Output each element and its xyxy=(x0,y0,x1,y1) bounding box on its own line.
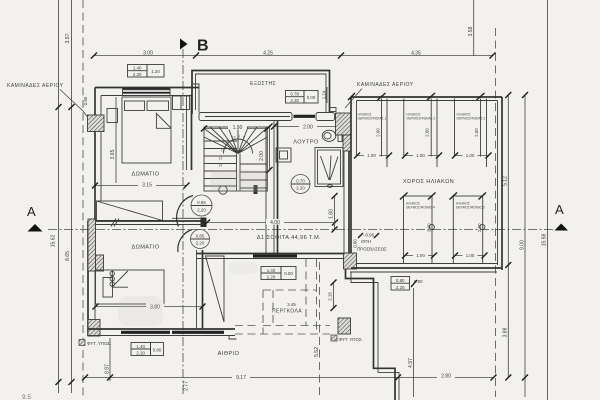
hall wall right of stair xyxy=(265,127,267,254)
svg-text:0.80: 0.80 xyxy=(414,279,423,284)
hall dim 2.00 vertical xyxy=(269,127,271,171)
dim line right 5.12/3.88 xyxy=(507,95,509,378)
svg-text:2.00: 2.00 xyxy=(259,151,265,161)
bedroom2 top wall xyxy=(88,220,203,222)
nightstand N1 xyxy=(107,109,118,123)
leader right xyxy=(345,89,362,109)
bed B2 knobs xyxy=(110,271,114,275)
dim 2.15 xyxy=(333,283,335,309)
bed B1 outline xyxy=(122,97,171,163)
svg-text:1.40: 1.40 xyxy=(133,66,142,71)
svg-text:10: 10 xyxy=(232,136,236,140)
svg-text:ΘΕΡΜΟΣΙΦΩΝΑΣ 5: ΘΕΡΜΟΣΙΦΩΝΑΣ 5 xyxy=(456,206,485,210)
faint scan smudge 2 xyxy=(118,296,163,326)
svg-text:9.00: 9.00 xyxy=(520,240,526,250)
balcony bottom wall seg2 xyxy=(316,113,335,121)
courtyard wall SE outer xyxy=(346,269,396,400)
svg-text:4.25: 4.25 xyxy=(263,50,273,56)
shower streams xyxy=(321,156,339,181)
svg-text:ΘΕΡΜΟΣΙΦΩΝΑΣ 4: ΘΕΡΜΟΣΙΦΩΝΑΣ 4 xyxy=(406,206,435,210)
dim 2.00 bath xyxy=(274,126,340,128)
dim line right 9.00 xyxy=(524,95,526,397)
svg-text:3.97: 3.97 xyxy=(65,33,71,43)
dim 4.00 xyxy=(207,222,335,224)
balcony bottom wall seg1 xyxy=(199,113,292,121)
svg-text:3.88: 3.88 xyxy=(503,327,509,337)
section line A-A horizontal dash-dot xyxy=(48,229,553,231)
svg-text:0.00: 0.00 xyxy=(284,271,293,276)
door schedule box bottom-right xyxy=(391,277,423,291)
solar cell 5 xyxy=(453,196,482,264)
svg-text:3.00: 3.00 xyxy=(143,50,153,56)
bottom dimension line xyxy=(85,377,494,379)
planting label right xyxy=(331,335,337,341)
courtyard wall SE inner xyxy=(351,272,399,400)
svg-text:2.00: 2.00 xyxy=(427,223,432,232)
dim line 3.58 xyxy=(473,0,475,56)
window W1 top dark band xyxy=(123,88,171,90)
svg-text:ΔΩΜΑΤΙΟ: ΔΩΜΑΤΙΟ xyxy=(131,172,159,178)
window schedule box W6 mid xyxy=(261,267,296,280)
shower tray xyxy=(315,148,343,187)
svg-text:2.15: 2.15 xyxy=(328,292,333,301)
stair arc xyxy=(224,139,253,154)
stair exit jamb xyxy=(254,185,258,194)
right dim ticks xyxy=(505,92,511,98)
dim 1.80 vertical xyxy=(334,196,336,230)
window schedule box W4 bottom-left xyxy=(131,343,164,356)
door D3 circle xyxy=(291,175,310,194)
planting label left xyxy=(79,340,85,346)
window W6 band xyxy=(253,254,297,257)
shower drain xyxy=(328,185,333,188)
svg-text:3.65: 3.65 xyxy=(110,149,116,159)
svg-text:1.40: 1.40 xyxy=(267,268,276,273)
pergola dashed rect xyxy=(235,259,330,334)
svg-text:0.70: 0.70 xyxy=(296,179,305,184)
faint scan smudge 3 xyxy=(228,262,258,274)
svg-text:8.65: 8.65 xyxy=(65,251,71,261)
dim 3.15 xyxy=(95,185,187,187)
svg-text:2.20: 2.20 xyxy=(290,98,299,103)
bed B2 fold xyxy=(112,270,128,287)
stair bottom circle xyxy=(219,186,227,194)
svg-text:5.12: 5.12 xyxy=(503,176,509,186)
chimney hatch left xyxy=(88,115,105,132)
bath door frame xyxy=(276,148,291,162)
balcony outer wall xyxy=(192,71,330,115)
section marker B triangle xyxy=(180,39,188,50)
svg-text:3.15: 3.15 xyxy=(142,183,152,189)
bed B1 pillow left xyxy=(125,101,145,111)
svg-text:1.80: 1.80 xyxy=(329,209,335,219)
svg-text:ΦΥΤ. ΥΠΟΣ.: ΦΥΤ. ΥΠΟΣ. xyxy=(87,341,111,346)
dim line 8.97 xyxy=(109,338,111,381)
dim tick left y107 xyxy=(69,104,75,110)
corridor wall under balcony xyxy=(198,88,200,113)
svg-text:9: 9 xyxy=(238,135,240,139)
door D1 swing xyxy=(177,196,193,227)
svg-text:2.00: 2.00 xyxy=(425,128,430,137)
hatch block hall SE xyxy=(344,253,357,269)
plot boundary line right xyxy=(547,0,549,400)
svg-text:−0.95: −0.95 xyxy=(363,233,375,238)
svg-text:0.80: 0.80 xyxy=(83,96,88,105)
svg-text:0.85: 0.85 xyxy=(197,200,206,205)
section line B vertical dash-dot xyxy=(182,49,184,395)
window schedule box W1 xyxy=(128,65,165,78)
svg-text:2.20: 2.20 xyxy=(197,208,206,213)
svg-text:ΔΩΜΑΤΙΟ: ΔΩΜΑΤΙΟ xyxy=(131,245,159,251)
svg-text:ΦΥΤ. ΥΠΟΣ.: ΦΥΤ. ΥΠΟΣ. xyxy=(339,337,363,342)
svg-text:1.00: 1.00 xyxy=(416,153,425,158)
svg-text:2.00: 2.00 xyxy=(474,128,479,137)
plot dim line left inner xyxy=(71,0,73,393)
door D2 circle xyxy=(191,230,210,249)
dashed setback line left xyxy=(82,0,84,397)
tiny label OK5 xyxy=(330,108,337,112)
dim line 4.97 xyxy=(413,288,415,397)
svg-text:9.17: 9.17 xyxy=(236,375,246,381)
svg-text:2.20: 2.20 xyxy=(267,275,276,280)
svg-text:ΑΙΘΡΙΟ: ΑΙΘΡΙΟ xyxy=(218,351,240,357)
leader left xyxy=(60,90,88,118)
dashed setback line right xyxy=(495,28,497,397)
svg-text:1.40: 1.40 xyxy=(136,344,145,349)
svg-text:2.00: 2.00 xyxy=(303,125,313,131)
toilet WC xyxy=(322,130,336,141)
svg-text:ΚΑΜΙΝΑΔΕΣ ΑΕΡΙΟΥ: ΚΑΜΙΝΑΔΕΣ ΑΕΡΙΟΥ xyxy=(7,83,64,89)
stair center stringer xyxy=(237,154,241,192)
faint scan smudge 1 xyxy=(210,170,265,192)
stair fan radials xyxy=(204,127,267,154)
label 9.17 xyxy=(232,374,250,380)
svg-text:ΛΟΥΤΡΟ: ΛΟΥΤΡΟ xyxy=(293,140,319,146)
svg-text:ΟΠΗ: ΟΠΗ xyxy=(361,239,371,244)
svg-text:1.20: 1.20 xyxy=(151,69,160,74)
dim line 5.52 xyxy=(319,262,321,396)
balcony window band hatchmarks xyxy=(205,116,290,118)
bed B2 outline xyxy=(96,270,165,304)
svg-text:0.00: 0.00 xyxy=(307,95,316,100)
svg-text:2.20: 2.20 xyxy=(396,285,405,290)
solar area left wall xyxy=(350,97,352,253)
svg-text:0.80: 0.80 xyxy=(153,348,162,353)
hatch planter left wall xyxy=(88,219,96,271)
solar cell 2 xyxy=(403,99,405,157)
wardrobe top-right xyxy=(173,96,190,110)
balcony left jog xyxy=(192,84,199,88)
svg-text:1.00: 1.00 xyxy=(466,153,475,158)
plot boundary line left outer xyxy=(58,0,60,393)
svg-text:2.80: 2.80 xyxy=(441,373,451,379)
svg-text:13: 13 xyxy=(219,157,223,161)
svg-text:1.00: 1.00 xyxy=(416,253,425,258)
bedroom2 bottom wall corner step xyxy=(229,336,237,340)
dim tick left bottom xyxy=(69,379,75,385)
svg-text:15.62: 15.62 xyxy=(51,235,57,248)
stair right treads xyxy=(240,164,267,188)
svg-text:12: 12 xyxy=(221,149,225,153)
door D1 circle xyxy=(191,195,212,216)
stair dim 1.90 xyxy=(204,128,267,130)
planter hatch right xyxy=(338,318,351,334)
solar area bottom wall xyxy=(351,267,502,269)
svg-text:ΘΕΡΜΟΣΙΦΩΝΑΣ 1: ΘΕΡΜΟΣΙΦΩΝΑΣ 1 xyxy=(358,117,387,121)
A left triangle xyxy=(28,224,43,232)
A right triangle xyxy=(555,224,569,231)
solar area top wall xyxy=(351,96,502,98)
bedroom1 top wall inner xyxy=(101,95,192,97)
bed B1 pillow right xyxy=(147,101,169,111)
solar cell 4 xyxy=(404,196,433,264)
closet with diagonal xyxy=(97,201,163,221)
svg-text:Δ1 ΣΟΦΙΤΑ 44,96 Τ.Μ.: Δ1 ΣΟΦΙΤΑ 44,96 Τ.Μ. xyxy=(257,235,321,241)
atrium triangle ladder xyxy=(206,256,225,322)
svg-text:A: A xyxy=(27,204,36,219)
svg-text:A: A xyxy=(555,202,564,217)
solar cell 3 xyxy=(454,99,456,157)
bedroom2 left wall xyxy=(87,221,89,336)
label 2.80 xyxy=(437,372,455,378)
solar cell 1 xyxy=(381,99,383,157)
svg-text:0.78: 0.78 xyxy=(290,92,299,97)
bed B1 fold xyxy=(156,113,171,129)
svg-text:8.97: 8.97 xyxy=(105,364,111,374)
svg-text:3.58: 3.58 xyxy=(468,26,474,36)
svg-text:4.00: 4.00 xyxy=(270,220,280,226)
bedroom2 bottom wall xyxy=(88,328,235,330)
bedroom1 left wall inner xyxy=(100,96,102,116)
bedroom1 right wall xyxy=(191,95,193,171)
svg-text:0.80: 0.80 xyxy=(396,278,405,283)
svg-text:5.52: 5.52 xyxy=(314,347,320,357)
svg-text:1.90: 1.90 xyxy=(233,125,243,131)
svg-text:9.5: 9.5 xyxy=(22,394,31,400)
solar area right wall xyxy=(501,97,503,270)
svg-text:ΠΡΟΣΒΑΣΕΩΣ: ΠΡΟΣΒΑΣΕΩΣ xyxy=(357,247,387,252)
svg-text:2.77: 2.77 xyxy=(184,381,190,391)
svg-text:2.00: 2.00 xyxy=(376,128,381,137)
dim 3.65 vertical xyxy=(115,97,117,183)
svg-text:ΘΕΡΜΟΣΙΦΩΝΑΣ 2: ΘΕΡΜΟΣΙΦΩΝΑΣ 2 xyxy=(407,117,436,121)
chimney hatch right xyxy=(336,113,352,135)
svg-text:ΚΑΜΙΝΑΔΕΣ ΑΕΡΙΟΥ: ΚΑΜΙΝΑΔΕΣ ΑΕΡΙΟΥ xyxy=(357,82,414,88)
dim 1.24 vertical xyxy=(326,87,328,103)
svg-text:3.45: 3.45 xyxy=(287,302,296,307)
bedroom1 left wall outer xyxy=(94,88,96,221)
hatch planter left bottom xyxy=(88,320,100,337)
svg-text:15.58: 15.58 xyxy=(542,234,548,247)
svg-text:4.35: 4.35 xyxy=(411,50,421,56)
svg-text:1.24: 1.24 xyxy=(322,90,327,99)
svg-text:1.00: 1.00 xyxy=(466,253,475,258)
bedroom1 top wall outer xyxy=(95,87,199,89)
stair left treads xyxy=(204,141,237,186)
stair outer box xyxy=(204,127,267,191)
balcony door dark band xyxy=(294,115,316,118)
svg-text:14: 14 xyxy=(219,164,223,168)
bed B2 pillow xyxy=(103,278,113,298)
svg-text:ΕΞΩΣΤΗΣ: ΕΞΩΣΤΗΣ xyxy=(250,81,276,87)
bedroom2 right wall xyxy=(202,250,204,329)
svg-text:ΠΕΡΓΚΟΛΑ: ΠΕΡΓΚΟΛΑ xyxy=(272,309,302,315)
svg-text:2.20: 2.20 xyxy=(133,72,142,77)
wall break marks xyxy=(111,219,119,227)
svg-text:4.97: 4.97 xyxy=(408,358,414,368)
svg-text:B: B xyxy=(197,38,209,55)
door D2 swing xyxy=(178,230,192,253)
svg-text:0.85: 0.85 xyxy=(196,234,205,239)
svg-text:2.20: 2.20 xyxy=(136,351,145,356)
window schedule box W2 balcony xyxy=(286,91,319,104)
top dimension line xyxy=(94,55,493,57)
window W5 band xyxy=(172,331,224,334)
hall south wall xyxy=(197,253,352,255)
bath west wall xyxy=(277,121,279,254)
balcony inner wall xyxy=(196,74,327,112)
svg-text:ΘΕΡΜΟΣΙΦΩΝΑΣ 3: ΘΕΡΜΟΣΙΦΩΝΑΣ 3 xyxy=(457,117,486,121)
svg-text:8: 8 xyxy=(243,136,245,140)
svg-text:2.20: 2.20 xyxy=(196,241,205,246)
svg-text:2.00: 2.00 xyxy=(477,223,482,232)
main east wall xyxy=(348,113,350,253)
window W4 band xyxy=(121,331,170,334)
svg-text:2.20: 2.20 xyxy=(296,186,305,191)
svg-text:1.00: 1.00 xyxy=(367,153,376,158)
dim 3.80 xyxy=(96,306,203,308)
svg-text:ΧΩΡΟΣ ΗΛΙΑΚΩΝ: ΧΩΡΟΣ ΗΛΙΑΚΩΝ xyxy=(403,179,454,185)
